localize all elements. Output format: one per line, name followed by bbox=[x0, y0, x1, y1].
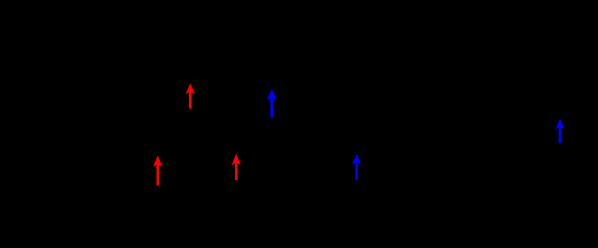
red up-arrow A1 (lower left) bbox=[153, 156, 162, 186]
red up-arrow A3 (lower middle) bbox=[232, 154, 241, 180]
blue up-arrow A6 (right) bbox=[556, 118, 565, 143]
red up-arrow A2 (upper) bbox=[186, 83, 195, 108]
blue up-arrow A5 (lower middle) bbox=[352, 154, 361, 180]
blue up-arrow A4 (upper) bbox=[267, 89, 277, 118]
